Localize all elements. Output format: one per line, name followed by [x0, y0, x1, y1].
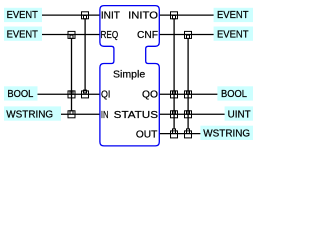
junction inner mark on BOOL-out wire at x=188 [187, 91, 190, 94]
wire CNF to EVENT out 2 [159, 34, 213, 36]
junction inner mark on BOOL wire at x=71.5 [70, 91, 73, 94]
wire vertical from INITO junction down to WSTRING-out junction [173, 19, 175, 130]
function block Simple outline [100, 6, 159, 146]
label EVENT input 2 background [4, 27, 42, 41]
wire STATUS to UINT out [159, 113, 224, 115]
svg-text:OUT: OUT [136, 130, 158, 141]
svg-text:Simple: Simple [113, 69, 145, 80]
wire EVENT1 to INIT [42, 14, 100, 16]
junction square on WSTRING-out wire at x=188 [185, 131, 192, 138]
label WSTRING input background [4, 106, 61, 120]
wire vertical from REQ junction down to WSTRING-in junction [71, 38, 73, 110]
junction square on INIT wire at x=85 [82, 12, 89, 19]
junction inner mark on WSTRING-out wire at x=188 [187, 129, 190, 134]
wire WSTRING to IN [61, 113, 100, 115]
junction square on BOOL-out wire at x=174 [171, 91, 178, 98]
junction inner mark on BOOL wire at x=85 [84, 90, 87, 93]
svg-text:EVENT: EVENT [7, 10, 38, 21]
junction square on WSTRING-in wire at x=71.5 [68, 111, 75, 118]
wire BOOL to QI [38, 93, 101, 95]
junction inner mark on CNF wire at x=188 [187, 35, 190, 38]
junction inner mark on REQ wire at x=71.5 [70, 35, 73, 38]
junction square on CNF wire at x=188 [185, 31, 192, 38]
label EVENT output 2 background [214, 27, 253, 41]
svg-text:IN: IN [101, 110, 109, 121]
wire QO to BOOL out [159, 93, 217, 95]
svg-text:INITO: INITO [128, 11, 158, 22]
label EVENT input 1 background [4, 8, 42, 22]
label EVENT output 1 background [214, 8, 253, 22]
label WSTRING output background [200, 126, 253, 140]
wire vertical from CNF junction down to WSTRING-out junction [187, 38, 189, 129]
junction inner mark on WSTRING-in wire at x=71.5 [70, 111, 73, 114]
svg-text:STATUS: STATUS [114, 110, 159, 121]
junction inner mark on INIT wire at x=85 [84, 16, 87, 19]
svg-text:BOOL: BOOL [7, 89, 34, 100]
svg-text:INIT: INIT [101, 11, 120, 22]
svg-text:EVENT: EVENT [7, 30, 38, 41]
svg-text:BOOL: BOOL [221, 89, 248, 100]
junction inner mark on BOOL-out wire at x=174 [173, 91, 176, 94]
svg-text:QI: QI [101, 90, 110, 101]
label BOOL output background [217, 86, 253, 100]
svg-text:EVENT: EVENT [217, 10, 249, 21]
junction inner mark on INITO wire at x=174 [173, 16, 176, 19]
junction square on REQ wire at x=71.5 [68, 31, 75, 38]
label UINT output background [225, 106, 253, 120]
junction inner mark on WSTRING-out wire at x=174 [173, 129, 176, 134]
junction square on BOOL wire at x=71.5 [68, 91, 75, 98]
junction inner mark on UINT wire at x=174 [173, 111, 176, 114]
wire vertical from INIT junction down to BOOL junction [84, 19, 86, 91]
wire INITO to EVENT out 1 [159, 14, 213, 16]
junction square on INITO wire at x=174 [171, 12, 178, 19]
wire OUT to WSTRING out [159, 133, 200, 135]
wire EVENT2 to REQ [42, 34, 100, 36]
svg-text:CNF: CNF [137, 30, 158, 41]
junction inner mark on UINT wire at x=188 [187, 111, 190, 114]
junction square on UINT wire at x=188 [185, 111, 192, 118]
svg-text:WSTRING: WSTRING [203, 129, 250, 140]
junction square on BOOL-out wire at x=188 [185, 91, 192, 98]
junction square on BOOL wire at x=85 [82, 91, 89, 98]
junction square on WSTRING-out wire at x=174 [171, 131, 178, 138]
svg-text:UINT: UINT [228, 109, 251, 120]
svg-text:QO: QO [142, 90, 158, 101]
label BOOL input background [4, 86, 38, 100]
svg-text:REQ: REQ [101, 30, 119, 41]
junction square on UINT wire at x=174 [171, 111, 178, 118]
svg-text:EVENT: EVENT [217, 30, 249, 41]
svg-text:WSTRING: WSTRING [6, 109, 53, 120]
